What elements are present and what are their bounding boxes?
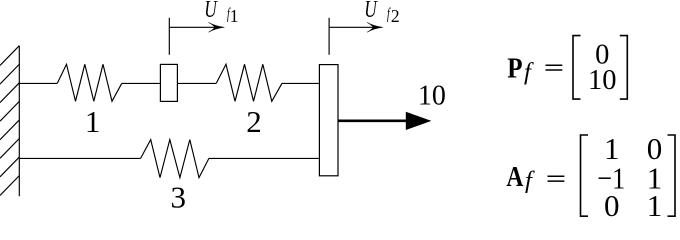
svg-text:f: f — [524, 59, 534, 86]
svg-text:1: 1 — [85, 104, 101, 139]
svg-text:2: 2 — [391, 6, 400, 26]
svg-text:A: A — [506, 161, 523, 193]
svg-text:10: 10 — [418, 80, 446, 111]
svg-text:0: 0 — [604, 188, 620, 223]
svg-text:U: U — [204, 0, 218, 23]
svg-text:1: 1 — [230, 6, 239, 26]
svg-text:2: 2 — [246, 104, 262, 139]
svg-text:U: U — [364, 0, 378, 23]
svg-text:f: f — [525, 167, 535, 194]
svg-text:3: 3 — [170, 179, 186, 214]
svg-text:1: 1 — [647, 188, 663, 223]
svg-text:10: 10 — [588, 65, 617, 96]
svg-text:P: P — [507, 52, 522, 84]
